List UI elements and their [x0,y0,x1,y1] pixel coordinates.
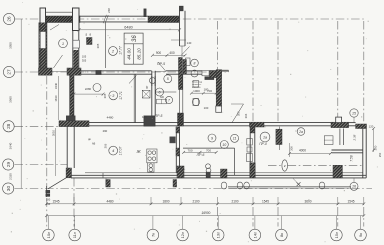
svg-text:2100: 2100 [192,199,199,203]
room circle 7 [191,59,199,67]
svg-text:36: 36 [132,35,138,42]
svg-text:2Б: 2Б [90,33,92,36]
corner block [67,116,76,121]
wing inner wall [72,31,74,69]
svg-text:305: 305 [82,59,87,63]
svg-text:3440: 3440 [54,82,58,89]
corridor wall stub [151,71,153,86]
dim 1000 700 [191,92,216,94]
svg-text:9: 9 [211,136,213,140]
shaft end box [216,106,222,112]
top wall parapet line [46,11,73,13]
svg-text:300: 300 [374,145,378,150]
svg-text:7к: 7к [150,233,155,237]
small wall right [339,129,341,146]
room circle 8 [192,98,199,105]
axis 29 horizontal [15,164,68,166]
bottom extension lines [73,197,75,205]
axis circle b5 [212,229,224,241]
svg-text:100: 100 [204,106,209,110]
vent box PR [202,71,216,76]
svg-text:5: 5 [167,77,169,81]
svg-text:17.07: 17.07 [119,147,123,156]
svg-text:16900: 16900 [202,211,211,215]
axis circle b4 [177,229,189,241]
balcony post 2 [173,180,177,188]
svg-text:3050: 3050 [9,42,13,49]
svg-text:10: 10 [222,143,226,147]
svg-text:ПР-5: ПР-5 [157,62,165,66]
door swing room6 [158,62,166,72]
interior wall B [249,127,251,163]
door swing top room1 [50,25,59,31]
room circle 4 [164,75,172,83]
partition h room6 [155,91,176,93]
dim 900 400 [153,54,186,56]
axis circle b9 [355,229,367,241]
axis 10 vertical [46,76,48,227]
room circle 1 [59,39,68,48]
axis circle b3 [147,229,159,241]
svg-text:1а: 1а [263,135,267,139]
svg-text:900: 900 [156,51,162,55]
wing left wall [38,23,40,72]
wing window frame lines [39,31,47,33]
svg-text:1800: 1800 [162,199,169,203]
wc fixture 1 [247,139,253,146]
wall end hatch block 3 [250,163,255,178]
room circle 10 [109,146,118,155]
svg-text:ЛР: ЛР [146,85,149,89]
wall end hatch block 2b [221,169,228,178]
top dim line 6480 [79,29,180,31]
circle leaders bottom [47,216,49,229]
svg-text:1810: 1810 [54,95,58,102]
svg-text:2330: 2330 [9,173,13,180]
corner cap [180,6,184,10]
vent duct D1 [276,129,282,144]
svg-text:3: 3 [112,93,115,98]
room circle 14 [260,132,270,142]
interior dim room [74,93,103,95]
svg-text:6480: 6480 [124,26,132,30]
wall end hatch block 4 [333,165,342,178]
svg-text:3060: 3060 [9,96,13,103]
axis circle 30 [3,183,14,194]
room circle 5 [156,88,164,96]
svg-text:250: 250 [378,152,382,157]
axis circle b1 [43,229,55,241]
kitchen stove [147,149,157,163]
axis circle 27 [3,66,14,77]
svg-text:2280: 2280 [85,87,92,91]
top wall hatched band right [148,16,179,23]
middle left wall hatch fill [70,75,74,116]
svg-text:1545: 1545 [347,199,354,203]
axis 14 vertical [277,21,279,122]
top wall double line middle [79,15,148,17]
svg-text:140: 140 [187,41,192,45]
axis27 wall double line [81,70,134,72]
svg-text:7.58: 7.58 [350,155,354,161]
axis 16 vertical [363,21,365,123]
svg-text:3600: 3600 [304,199,311,203]
svg-text:16: 16 [352,185,356,189]
svg-text:Ниша под: Ниша под [192,82,203,84]
svg-text:12л: 12л [180,231,185,238]
pilaster above wall [336,117,342,123]
door swing big room [232,104,244,123]
svg-text:100: 100 [142,115,147,119]
svg-text:105: 105 [82,55,87,59]
balcony post 1 [106,180,110,188]
wc fixture 3 [247,154,253,162]
svg-text:300: 300 [105,180,109,185]
circle leader top right [353,117,355,122]
lower left wall [66,127,68,178]
svg-text:180: 180 [204,88,209,92]
svg-text:2100: 2100 [231,199,238,203]
svg-text:700: 700 [206,148,211,152]
axis circle 29 [3,159,14,170]
svg-text:1545: 1545 [262,199,269,203]
svg-text:ПР-5: ПР-5 [155,114,163,118]
axis circle b2 [69,229,81,241]
interior wall B hatch [250,127,255,133]
svg-text:26: 26 [7,16,12,22]
svg-text:268: 268 [107,8,111,13]
room circle 6 [165,96,172,103]
short dim line [171,39,186,41]
svg-text:2: 2 [111,49,115,54]
svg-text:15: 15 [352,111,356,115]
right room partition [332,149,363,151]
left axis connector line [20,19,22,189]
room circle 3b [93,84,101,92]
room circle 11 [208,134,216,142]
bottom wall inner face [85,172,363,174]
right side dim 300 [373,129,375,153]
room circle 2 [109,47,118,56]
svg-text:305: 305 [237,111,241,116]
wall joint tick [102,173,104,178]
svg-text:10л: 10л [46,231,51,238]
axis28 wall double line [89,122,250,124]
wing duct [87,38,93,45]
svg-text:дв: дв [88,138,91,141]
axis27 wall hatch left [39,68,53,75]
door sill [52,71,67,73]
lower left hatch block [66,168,71,178]
wing partition [104,23,106,69]
svg-text:27: 27 [7,69,12,75]
svg-text:1Б: 1Б [86,33,88,36]
wall tick [144,9,146,17]
svg-text:305: 305 [96,43,100,48]
svg-text:700: 700 [187,148,192,152]
interior wall C thin [279,127,281,150]
svg-text:85.10: 85.10 [137,48,142,60]
svg-text:11: 11 [233,137,237,141]
axis28 wall hatch right [331,122,349,127]
svg-text:15л: 15л [334,231,339,238]
axis27 wall right part [166,70,202,72]
svg-text:8к: 8к [279,233,284,237]
bathroom fixture 1 [193,81,199,88]
duct wall room56 [178,90,180,123]
wall pier dark [96,71,101,75]
svg-text:400: 400 [169,51,175,55]
svg-text:17.77: 17.77 [119,46,123,55]
circle leader bottom right [353,178,355,182]
right outer wall [362,129,364,178]
dim 4000 line [290,153,331,155]
porch diagonal [48,178,66,189]
svg-text:ПР-6: ПР-6 [197,153,205,157]
room circle 16b [297,128,305,136]
break symbol [103,15,106,23]
duct stack PR-5 [179,58,183,90]
svg-text:г: г [284,164,286,168]
bottom dim row 2 overall [47,215,365,217]
bottom dim row 1 [47,203,365,205]
svg-text:ПР-4: ПР-4 [259,142,266,146]
axis 28 horizontal [15,125,63,127]
door niche box [186,58,191,66]
balcony outer line [228,185,351,187]
shaft wall [216,70,221,106]
small circle pair [206,164,211,169]
svg-text:1: 1 [62,41,64,46]
apartment stamp box [124,33,143,64]
svg-text:140: 140 [46,202,51,206]
vertical dim line left rooms [58,76,60,120]
svg-text:тепло сч.: тепло сч. [192,84,202,86]
svg-text:300: 300 [46,198,51,202]
axis 26 horizontal [15,18,365,20]
svg-text:8: 8 [194,61,196,65]
dim 700 700 kitchen [184,151,217,153]
dark bar [205,77,214,80]
svg-text:4480: 4480 [107,116,114,120]
middle left wall [69,75,71,116]
wall stub right [222,69,229,71]
svg-text:1545: 1545 [52,199,59,203]
axis27 wall hatch mid [67,68,81,75]
svg-text:АВ: АВ [92,143,96,146]
svg-text:1000: 1000 [193,89,200,93]
axis 30 horizontal [15,188,373,190]
wing left wall hatch fill [39,23,47,69]
svg-text:Ж: Ж [136,149,142,154]
axis 13 vertical [252,21,254,122]
axis 15 vertical [337,21,339,122]
axis 12 vertical [217,21,219,70]
wing door sill [181,46,183,57]
bathroom fixture 2 [193,99,199,106]
door swing [54,55,63,68]
wing right wall [179,11,181,46]
wing door swing [182,47,190,56]
svg-text:2а: 2а [298,130,303,134]
balcony circles [221,182,227,189]
svg-text:30: 30 [6,186,11,192]
leader 300 [105,178,107,186]
svg-text:28: 28 [6,123,11,129]
svg-text:4: 4 [112,148,115,153]
axis28 wall continues [264,122,331,124]
svg-text:17.71: 17.71 [119,91,123,100]
axis circle b8 [331,229,343,241]
svg-text:290: 290 [103,129,108,133]
room circle 18 [350,182,358,190]
axis 11 vertical [73,178,75,227]
right room cupboard [324,136,333,145]
svg-text:305: 305 [103,93,107,98]
bathroom box X [142,90,150,98]
axis28 wall hatch mid [250,122,265,127]
axis circle b6 [249,229,261,241]
svg-text:9к: 9к [358,233,363,237]
svg-text:3010: 3010 [52,129,56,136]
svg-text:300: 300 [290,146,294,151]
pilaster P1 [40,8,46,31]
door sill room6 [155,71,166,73]
leader X mark [293,178,299,184]
kitchen duct [170,137,176,143]
axis27 wall hatch right [210,71,222,78]
wc fixture 2 [247,147,252,152]
partition room 9/10 [183,147,235,149]
wing niche window [73,40,79,48]
dark blob kitchen wall [206,172,210,177]
svg-text:306: 306 [103,143,107,148]
porch step marks [46,191,50,193]
porch edge [46,186,48,197]
svg-text:120: 120 [369,125,374,129]
dark block under corridor wall [144,116,155,126]
svg-text:6: 6 [159,90,161,94]
svg-text:3640: 3640 [9,142,13,149]
svg-text:600: 600 [160,96,165,99]
axis circle b7 [276,229,288,241]
vertical dim line lower [55,128,57,176]
door swing room5 [129,75,137,83]
room circle 9 [150,78,156,84]
partition room5 [133,74,135,122]
svg-text:306: 306 [244,113,248,118]
top wall hatched band left [40,16,80,23]
room circle 7b [191,70,198,77]
interior axis G horizontal [268,164,282,166]
wall end hatch block 2 [177,166,184,178]
svg-text:2.38: 2.38 [353,134,357,141]
kitchen sink [148,163,154,172]
axis circle 28 [3,121,14,132]
room circle 3 [109,91,118,100]
pilaster P2 [73,8,80,31]
svg-text:29: 29 [6,162,11,168]
svg-text:7: 7 [168,98,170,102]
room circle 13 [231,134,239,142]
svg-text:4000: 4000 [299,149,306,153]
axis circle 26 [3,13,14,24]
room circle 12 [220,141,228,149]
axis ellipse G [282,160,288,171]
svg-text:13л: 13л [216,231,221,238]
axis28 wall hatch left [59,121,89,127]
svg-text:14л: 14л [252,231,257,238]
svg-text:44.00: 44.00 [127,48,132,60]
room circle 17 [350,109,358,117]
hall boxes [157,99,167,104]
duct block above wall A [178,113,184,126]
interior wall A [175,127,177,173]
bottom wall [71,174,366,176]
svg-text:11л: 11л [72,231,77,238]
axis 27 horizontal [15,71,230,73]
corridor wall room56 [151,76,153,116]
svg-text:4480: 4480 [106,199,113,203]
